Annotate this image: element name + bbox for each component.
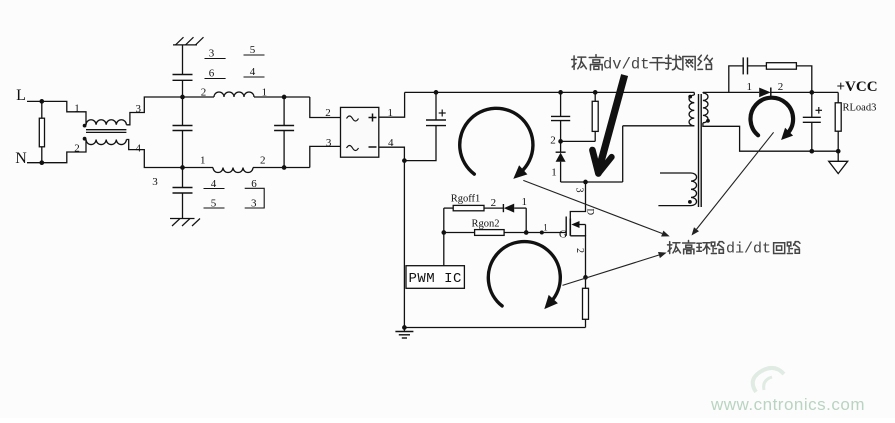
svg-text:2: 2 <box>778 81 784 93</box>
svg-text:2: 2 <box>325 107 331 119</box>
svg-text:www.cntronics.com: www.cntronics.com <box>710 395 865 414</box>
svg-text:3: 3 <box>209 48 215 60</box>
svg-text:1: 1 <box>200 155 206 167</box>
svg-text:2: 2 <box>550 135 556 147</box>
svg-text:G: G <box>559 229 567 241</box>
svg-text:2: 2 <box>574 248 585 253</box>
svg-text:N: N <box>15 150 27 167</box>
svg-text:1: 1 <box>262 87 268 99</box>
svg-text:3: 3 <box>326 137 332 149</box>
svg-text:D: D <box>586 209 596 216</box>
svg-text:di/dt: di/dt <box>726 241 771 258</box>
svg-text:2: 2 <box>201 87 207 99</box>
svg-text:4: 4 <box>136 143 142 155</box>
svg-text:3: 3 <box>251 198 257 210</box>
svg-text:1: 1 <box>521 196 527 208</box>
svg-text:2: 2 <box>260 155 266 167</box>
svg-text:RLoad3: RLoad3 <box>843 103 877 114</box>
svg-text:6: 6 <box>209 68 215 80</box>
svg-text:Rgon2: Rgon2 <box>471 219 499 230</box>
svg-text:4: 4 <box>250 66 256 78</box>
svg-text:3: 3 <box>152 176 158 188</box>
svg-text:L: L <box>16 87 26 104</box>
svg-text:+VCC: +VCC <box>837 79 878 95</box>
svg-text:3: 3 <box>136 103 142 115</box>
svg-text:5: 5 <box>250 44 256 56</box>
svg-text:1: 1 <box>543 223 548 233</box>
svg-text:Rgoff1: Rgoff1 <box>451 194 481 205</box>
svg-text:2: 2 <box>74 143 80 155</box>
svg-text:PWM IC: PWM IC <box>408 271 461 287</box>
svg-text:1: 1 <box>74 103 80 115</box>
svg-text:2: 2 <box>491 197 497 209</box>
svg-text:1: 1 <box>747 81 753 93</box>
svg-text:1: 1 <box>551 167 557 179</box>
svg-text:3: 3 <box>574 188 585 193</box>
svg-text:dv/dt: dv/dt <box>603 56 650 74</box>
